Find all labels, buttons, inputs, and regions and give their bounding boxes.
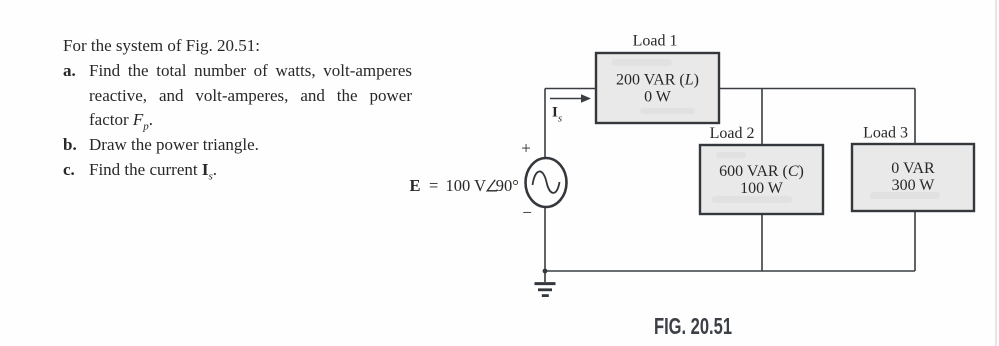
svg-text:+: + [521,139,531,158]
svg-text:s: s [558,114,562,125]
svg-text:FIG. 20.51: FIG. 20.51 [654,313,732,339]
svg-text:200 VAR (L): 200 VAR (L) [616,72,699,89]
svg-text:300 W: 300 W [892,177,936,194]
svg-text:Load 2: Load 2 [710,125,755,142]
svg-text:0 VAR: 0 VAR [891,160,935,177]
svg-text:Load 3: Load 3 [863,125,908,142]
svg-text:0 W: 0 W [644,89,672,106]
svg-text:E=100 V90°: E=100 V90° [410,176,519,195]
svg-text:100 W: 100 W [740,180,784,197]
svg-text:Load 1: Load 1 [633,33,678,50]
svg-text:600 VAR (C): 600 VAR (C) [719,163,804,180]
svg-text:−: − [522,203,532,222]
